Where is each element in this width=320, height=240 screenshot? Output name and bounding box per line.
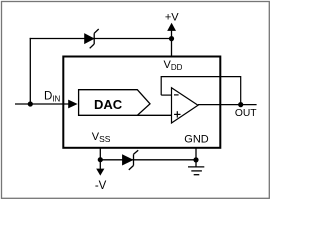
svg-text:GND: GND: [184, 133, 209, 145]
wire: left vertical riser from DIN node to top rail: [29, 38, 31, 104]
node: GND junction dot: [193, 157, 198, 162]
node: -V junction dot: [98, 157, 103, 162]
wire: op-amp output to OUT terminal: [198, 104, 257, 106]
wire: top rail to +V node: [30, 38, 172, 40]
wire: vertical from +V arrow to VDD pin: [171, 30, 173, 57]
power symbol: +V arrow: [167, 23, 176, 31]
svg-text:OUT: OUT: [235, 108, 257, 119]
power symbol: -V arrow: [96, 169, 104, 176]
node: DIN junction dot: [28, 101, 33, 106]
op-amp non-inverting input mark (+): [174, 111, 180, 117]
op-amp inverting input mark (-): [174, 94, 179, 96]
zener diode (top protection diode): [85, 29, 99, 48]
wire: feedback loop (up, across, down to output): [161, 77, 241, 105]
wire: bottom rail from -V node to GND node: [100, 159, 196, 161]
zener diode (bottom protection diode): [122, 150, 138, 170]
DAC block: [79, 90, 150, 116]
wire: DAC to op-amp non-inverting input: [137, 114, 171, 116]
wire: GND pin down to ground symbol: [195, 148, 197, 167]
node: +V junction dot on top rail: [169, 36, 174, 41]
wire: VSS pin down to -V node: [99, 148, 101, 169]
border frame (decorative): [2, 2, 270, 199]
node: feedback/output junction dot: [238, 102, 243, 107]
wire: inverting input stub: [161, 94, 171, 96]
svg-text:-V: -V: [95, 180, 107, 192]
arrowhead: DIN into DAC: [68, 100, 77, 109]
wire: DIN input lead: [15, 103, 69, 105]
IC body (main box): [63, 57, 220, 148]
svg-text:+V: +V: [165, 11, 179, 23]
svg-text:DAC: DAC: [94, 97, 123, 112]
op-amp U1: [172, 88, 199, 123]
ground symbol: [188, 167, 204, 175]
